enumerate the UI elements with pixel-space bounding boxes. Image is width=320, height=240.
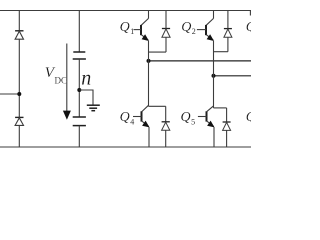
svg-text:n: n: [81, 67, 91, 89]
wire Q5 emitter to bottom rail: [213, 127, 215, 147]
wire leg1 bus A to Q4 collector: [148, 61, 150, 106]
wire left branch vertical: [18, 11, 20, 148]
bus B (leg 2 output): [214, 75, 252, 77]
wire Q1 emitter to bus A: [148, 41, 150, 61]
node n junction dot: [77, 88, 81, 92]
svg-text:1: 1: [130, 27, 134, 36]
bus A (leg 1 output): [149, 60, 252, 62]
capacitor C2 (lower DC-link capacitor): [73, 117, 86, 126]
diode D2 (Q2 antiparallel): [224, 11, 232, 52]
wire Q2 emitter-diode branch: [214, 51, 228, 53]
wire top DC rail: [0, 10, 251, 12]
node junction leg1 midpoint: [147, 59, 151, 63]
wire leg2 bus B to Q5 collector: [213, 76, 215, 108]
ground: [87, 105, 100, 111]
transistor Q4: [133, 105, 150, 127]
diode D1 (Q1 antiparallel): [162, 11, 170, 53]
wire node n to ground: [79, 90, 93, 105]
V_DC arrow: [63, 44, 71, 120]
svg-text:Q: Q: [246, 110, 251, 125]
svg-text:5: 5: [191, 118, 195, 127]
wire Q4 emitter to bottom rail: [148, 127, 150, 147]
label Q2: [181, 20, 196, 36]
V_DC label: [45, 65, 67, 86]
capacitor C1 (upper DC-link capacitor): [73, 52, 86, 59]
svg-text:4: 4: [130, 118, 134, 127]
wire bottom DC rail: [0, 146, 251, 148]
node junction leg2 midpoint: [212, 74, 216, 78]
transistor Q2: [197, 11, 214, 42]
label Q1: [120, 20, 135, 36]
diode D4 (Q4 antiparallel): [162, 106, 170, 147]
diode D8 (lower left clamp diode): [15, 117, 23, 125]
svg-text:2: 2: [192, 27, 196, 36]
svg-text:DC: DC: [55, 76, 68, 86]
transistor Q5: [198, 106, 215, 128]
svg-text:Q: Q: [181, 110, 191, 125]
wire Q5 collector-diode branch: [214, 107, 227, 109]
svg-text:Q: Q: [120, 110, 130, 125]
svg-text:Q: Q: [246, 20, 251, 35]
wire Q2 emitter to bus B: [213, 41, 215, 76]
label Q5: [181, 110, 196, 127]
wire Q1 emitter-diode branch: [149, 51, 167, 53]
wire DC-link middle segment: [78, 59, 80, 117]
svg-text:Q: Q: [120, 20, 130, 35]
label Q4: [120, 110, 135, 127]
transistor Q1: [134, 11, 150, 42]
diode D7 (upper left clamp diode): [15, 31, 23, 39]
node junction on left branch: [17, 92, 21, 96]
wire right edge top stub: [249, 11, 251, 16]
wire Q4 collector-diode branch: [149, 105, 166, 107]
svg-text:Q: Q: [181, 20, 191, 35]
wire left input: [0, 93, 19, 95]
wire DC-link lower segment: [78, 126, 80, 147]
wire DC-link upper segment: [78, 11, 80, 52]
diode D5 (Q5 antiparallel): [223, 108, 231, 147]
